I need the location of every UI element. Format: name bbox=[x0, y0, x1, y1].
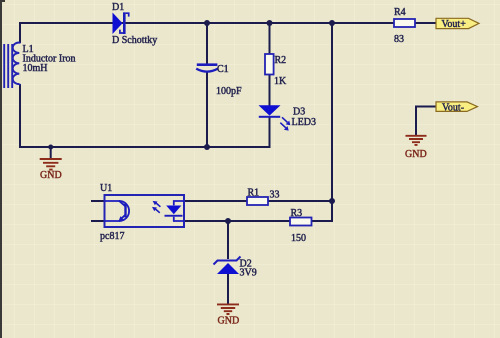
left screenshot border bbox=[0, 0, 2, 338]
zener diode D2 bbox=[214, 257, 241, 275]
svg-text:R4: R4 bbox=[394, 7, 406, 18]
svg-text:pc817: pc817 bbox=[100, 231, 124, 242]
wire C1 top lead bbox=[206, 23, 208, 65]
wire U1 pin3 to R3 bbox=[184, 220, 290, 222]
svg-text:R3: R3 bbox=[291, 208, 303, 219]
wire D2 anode lead bbox=[227, 221, 229, 259]
wire right vertical bus to R3 bbox=[312, 23, 332, 221]
svg-text:150: 150 bbox=[291, 233, 306, 244]
svg-text:D Schottky: D Schottky bbox=[112, 35, 157, 46]
junction dot C1 bottom bbox=[204, 144, 210, 150]
capacitor C1 bbox=[196, 63, 218, 71]
wire left ground stem bbox=[50, 147, 52, 159]
junction dot D2 tap bbox=[225, 218, 231, 224]
wire D2 to ground bbox=[227, 274, 229, 304]
top-left border nub bbox=[0, 0, 5, 2]
ground GND bottom bbox=[217, 304, 239, 314]
inductor L1 bbox=[4, 43, 20, 89]
resistor R4 bbox=[394, 19, 415, 27]
wire top rail node A bbox=[20, 22, 394, 24]
wire U1 pin2 stub bbox=[91, 220, 105, 222]
svg-text:R1: R1 bbox=[248, 188, 260, 199]
wire U1 pin1 stub bbox=[91, 200, 105, 202]
svg-text:GND: GND bbox=[40, 170, 62, 181]
junction dot C1 top bbox=[204, 20, 210, 26]
wire R4 to port Vout+ bbox=[415, 22, 437, 24]
svg-text:100pF: 100pF bbox=[216, 86, 242, 97]
wire L1 top lead bbox=[19, 22, 21, 43]
wire R2 top lead bbox=[269, 23, 271, 55]
svg-text:LED3: LED3 bbox=[292, 117, 316, 128]
optocoupler U1 bbox=[105, 195, 185, 227]
svg-text:U1: U1 bbox=[100, 183, 112, 194]
svg-text:1K: 1K bbox=[274, 76, 287, 87]
svg-text:83: 83 bbox=[394, 34, 404, 45]
svg-text:GND: GND bbox=[405, 149, 427, 160]
port Vout+ bbox=[436, 18, 479, 30]
ground GND right bbox=[406, 136, 427, 145]
resistor R3 bbox=[290, 218, 312, 226]
wire bottom rail to D3 cathode bbox=[19, 116, 270, 147]
diode D1 Schottky bbox=[113, 12, 129, 34]
svg-text:D3: D3 bbox=[293, 107, 305, 118]
svg-text:R2: R2 bbox=[275, 55, 287, 66]
port Vout- bbox=[436, 102, 478, 114]
wire U1 pin4 to R1 bbox=[184, 200, 247, 202]
LED D3 bbox=[259, 105, 291, 130]
junction dot R2 top bbox=[267, 20, 273, 26]
svg-text:GND: GND bbox=[218, 316, 240, 327]
svg-text:Vout-: Vout- bbox=[442, 103, 464, 114]
ground GND left bbox=[40, 159, 62, 170]
svg-text:C1: C1 bbox=[217, 64, 229, 75]
wire C1 bottom lead bbox=[206, 72, 208, 147]
svg-text:Vout+: Vout+ bbox=[442, 19, 467, 30]
wire R1 to bus bbox=[268, 200, 332, 202]
resistor R1 bbox=[247, 197, 268, 205]
wire L1 bottom lead bbox=[19, 84, 21, 147]
wire R2 to D3 bbox=[269, 74, 271, 106]
junction dot R1 bus bbox=[329, 198, 335, 204]
junction dot bus top bbox=[329, 20, 335, 26]
svg-text:33: 33 bbox=[270, 190, 280, 201]
junction dot ground tap bbox=[48, 145, 53, 150]
wire Vout- to ground bbox=[416, 107, 436, 136]
resistor R2 bbox=[265, 54, 274, 75]
svg-text:10mH: 10mH bbox=[23, 63, 48, 74]
svg-text:D1: D1 bbox=[112, 2, 124, 13]
svg-text:3V9: 3V9 bbox=[240, 268, 257, 279]
